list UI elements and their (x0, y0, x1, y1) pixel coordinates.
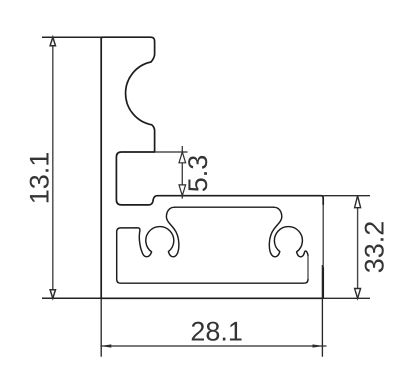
svg-text:13.1: 13.1 (25, 152, 55, 205)
svg-text:5.3: 5.3 (183, 155, 213, 193)
cavity top edge (175, 206, 274, 208)
arrow 33.2 up (355, 196, 361, 208)
dim 33.2: dimension line (357, 196, 359, 299)
dim 28.1: right extension line (321, 265, 323, 357)
dim 13.1: top extension line (42, 36, 101, 38)
arrow 5.3 up (179, 152, 186, 163)
dim 5.3: dimension line (181, 146, 183, 199)
cavity walls (left, bottom) (117, 228, 308, 283)
arrow 28.1 left (filled slim) (101, 344, 112, 347)
arrow 5.3 down (179, 185, 186, 196)
arrow 28.1 right (filled slim) (313, 344, 324, 347)
dim 5.3: top extension line (155, 151, 188, 153)
right C-boss (269, 207, 308, 257)
dim 33.2: bottom extension line (323, 297, 370, 299)
arrow 13.1 down (50, 290, 55, 299)
dim 13.1: bottom extension line (42, 297, 101, 299)
profile outer outline (leg, notch, recess, bar) (101, 37, 323, 205)
svg-text:28.1: 28.1 (190, 316, 243, 346)
profile bar right edge middle (thin) (322, 205, 324, 268)
cavity right wall (thin) (307, 256, 309, 279)
svg-text:33.2: 33.2 (360, 221, 390, 274)
arrow 33.2 down (355, 289, 361, 299)
dim 28.1: dimension line (100, 345, 326, 347)
dim 13.1: dimension line (52, 37, 54, 298)
dim 33.2: top extension line (323, 195, 370, 197)
arrow 13.1 up (50, 37, 55, 46)
left C-boss (136, 207, 179, 257)
profile outer bar right edge lower part and bottom (101, 37, 323, 298)
dim 28.1: left extension line (100, 298, 102, 356)
